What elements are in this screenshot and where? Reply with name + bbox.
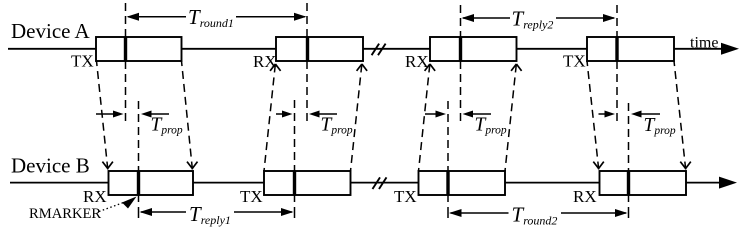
frame box A3 (RX frame on Device A) xyxy=(430,37,517,61)
frame box A2 (RX frame on Device A) xyxy=(276,37,363,61)
dashed marker line below A2 xyxy=(306,61,308,122)
frame box A1 (TX frame on Device A) xyxy=(96,37,182,61)
dashed marker line below B4 xyxy=(628,195,630,222)
Tprop arrows exchange 3 xyxy=(425,111,491,118)
svg-text:Device A: Device A xyxy=(11,19,91,43)
dashed marker line below A4 xyxy=(616,61,618,126)
svg-text:TX: TX xyxy=(394,187,417,206)
dashed propagation line B3 right edge to A3 right edge xyxy=(505,64,522,171)
svg-text:TX: TX xyxy=(563,52,586,71)
dashed marker line above A1 xyxy=(125,3,127,37)
dashed marker line below A3 xyxy=(460,61,462,122)
dashed marker line above B4 xyxy=(628,103,630,171)
frame box A4 (TX frame on Device A) xyxy=(587,37,674,61)
svg-text:TX: TX xyxy=(240,187,263,206)
RMARKER line in box B2 xyxy=(293,171,296,195)
dashed marker line below B3 xyxy=(447,195,449,222)
dashed marker line below A1 xyxy=(125,61,127,122)
dashed marker line above A2 xyxy=(306,3,308,37)
dashed propagation line A1 left edge to B1 left edge xyxy=(97,61,113,170)
frame box B2 (TX frame on Device B) xyxy=(264,171,351,195)
svg-text:RX: RX xyxy=(573,187,597,206)
dashed marker line above A4 xyxy=(616,5,618,37)
dashed propagation line A4 right edge to B4 right edge xyxy=(674,61,691,170)
svg-text:Device B: Device B xyxy=(11,154,90,178)
dashed propagation line B2 left edge to A2 left edge xyxy=(264,64,281,171)
frame box B1 (RX frame on Device B) xyxy=(109,171,194,195)
Tprop arrows exchange 2 xyxy=(276,111,337,118)
frame box B3 (TX frame on Device B) xyxy=(419,171,506,195)
svg-text:RMARKER: RMARKER xyxy=(29,206,101,222)
Device B timeline xyxy=(10,177,737,189)
svg-text:TX: TX xyxy=(71,52,94,71)
RMARKER line in box B3 xyxy=(446,171,449,195)
Tprop arrows exchange 1 xyxy=(96,111,169,118)
Treply1 dimension arrow xyxy=(140,208,294,216)
RMARKER line in box A3 xyxy=(459,37,462,61)
RMARKER line in box B4 xyxy=(627,171,630,195)
dashed propagation line A1 right edge to B1 right edge xyxy=(182,61,198,170)
dashed propagation line B2 right edge to A2 right edge xyxy=(351,64,368,171)
RMARKER dotted pointer xyxy=(99,197,137,212)
RMARKER line in box B1 xyxy=(137,171,140,195)
dashed marker line above B2 xyxy=(294,100,296,171)
dashed marker line above A3 xyxy=(460,5,462,37)
dashed marker line above B1 xyxy=(138,101,140,171)
dashed marker line below B1 xyxy=(138,195,140,222)
Treply2 dimension arrow xyxy=(462,14,616,22)
svg-text:RX: RX xyxy=(83,187,107,206)
dashed marker line above B3 xyxy=(447,101,449,171)
dashed propagation line B3 left edge to A3 left edge xyxy=(419,64,436,171)
Device A timeline xyxy=(8,43,739,55)
dashed propagation line A4 left edge to B4 left edge xyxy=(587,61,604,170)
Tround2 dimension arrow xyxy=(449,209,628,217)
RMARKER line in box A4 xyxy=(615,37,618,61)
frame box B4 (RX frame on Device B) xyxy=(600,171,687,195)
svg-text:time: time xyxy=(690,35,718,52)
RMARKER line in box A2 xyxy=(306,37,309,61)
Tround1 dimension arrow xyxy=(127,13,307,21)
break symbol on B timeline xyxy=(373,177,387,189)
dashed marker line below B2 xyxy=(294,195,296,222)
svg-text:RX: RX xyxy=(405,52,429,71)
RMARKER line in box A1 xyxy=(124,37,127,61)
break symbol on A timeline xyxy=(372,44,386,56)
Tprop arrows exchange 4 xyxy=(599,111,661,118)
